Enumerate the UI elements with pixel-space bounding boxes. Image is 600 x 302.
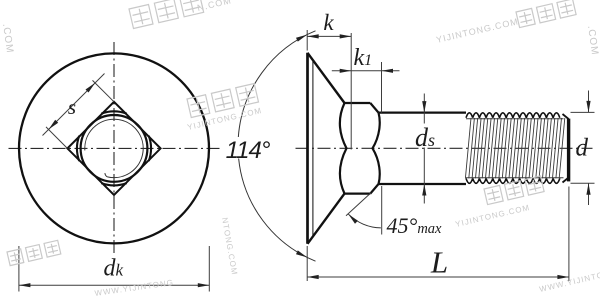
centerline horizontal (side view axis) [296, 147, 593, 149]
thread crest outline bottom [466, 178, 560, 183]
square neck top flat [345, 102, 371, 104]
dimension s arrows [49, 120, 59, 130]
svg-text:k: k [323, 10, 334, 35]
thread circle (thin, 3/4 arc, front view) [85, 119, 143, 177]
vertical reference line for 45 [381, 186, 383, 235]
extension line head face top (for k and 114) [306, 30, 308, 51]
square neck bottom flat [345, 193, 371, 195]
svg-text:d: d [576, 135, 589, 162]
angle 114 arc lower part [239, 159, 316, 262]
watermark bottom-left [7, 240, 61, 265]
extension line k right [350, 33, 352, 150]
dimension dk line [19, 284, 209, 286]
thread end face [567, 119, 570, 182]
extension line L left (head face, below) [306, 246, 308, 281]
extension of lower-left flat for s [46, 127, 67, 148]
square neck (rotated 45, front view) [67, 102, 160, 195]
angle 114 arc upper part [238, 31, 315, 137]
square neck far-corner curve (right) [373, 113, 380, 184]
angle 45 arrow [348, 214, 358, 224]
watermark top-left [129, 0, 204, 28]
shank circle (thick, front view) [81, 115, 148, 182]
shank top edge [379, 111, 467, 113]
dimension L line [307, 276, 569, 278]
head face (flat top of countersunk head) [306, 53, 309, 244]
extension lines for d [571, 111, 595, 113]
extension lines for dk [18, 246, 20, 292]
watermark mid-right [484, 176, 544, 205]
dimension k arrows [307, 34, 319, 38]
thread flank lines [465, 118, 564, 178]
shank bottom edge [379, 183, 467, 185]
thread minor diameter line top [466, 118, 564, 120]
dimension ds arrow top [423, 94, 425, 113]
extension line k1 right [381, 62, 383, 113]
square neck chamfer bottom [370, 184, 378, 194]
watermark mid-left [187, 83, 259, 117]
dimension dk arrows [19, 283, 31, 287]
square neck near-corner curve (left) [340, 103, 347, 194]
head cone edge bottom [308, 194, 345, 244]
dimension ds inner line segments [423, 113, 425, 124]
dimension s line [43, 74, 105, 136]
thread crest outline top [466, 113, 560, 118]
thread end chamfer top [563, 114, 569, 119]
svg-text:s: s [68, 95, 76, 119]
dimension k1 arrows [340, 69, 352, 73]
cone start line on head [312, 60, 314, 237]
head cone circle arcs at square corners [101, 111, 126, 113]
dimension k1 line with outside arrows [332, 70, 382, 72]
dimension k line [307, 35, 351, 37]
dimension d arrows [588, 91, 590, 113]
square neck chamfer top [370, 103, 378, 113]
chamfer 45 extension line [346, 193, 371, 216]
dimension L arrows [307, 275, 319, 279]
thread minor diameter line bottom [466, 177, 564, 179]
head outline circle dk (front view) [19, 53, 209, 243]
angle 45 arc [348, 214, 381, 228]
extension of upper-right flat for s [93, 80, 115, 101]
svg-text:114°: 114° [226, 137, 271, 164]
thread circle hook [105, 173, 108, 177]
centerline vertical (front view axis) [113, 42, 115, 256]
centerline horizontal (front view axis) [9, 147, 221, 149]
dimension ds arrow bottom [423, 184, 425, 204]
svg-text:L: L [430, 245, 448, 280]
thread end chamfer bottom [563, 178, 569, 183]
extension line L right (thread end) [568, 187, 570, 282]
head cone edge top [308, 53, 345, 103]
angle 114 arrows [296, 35, 307, 42]
